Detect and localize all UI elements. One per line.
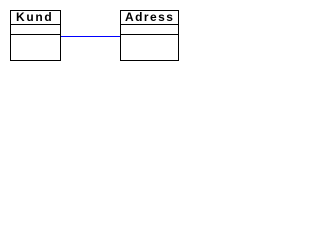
class name Kund [16,13,53,22]
compartment divider (Kund attributes) [10,24,61,25]
compartment divider (Adress attributes) [120,24,179,25]
class name Adress [125,13,174,22]
association line Kund-Adress [61,36,120,37]
class box Adress [120,10,179,61]
compartment divider (Adress operations) [120,34,179,35]
compartment divider (Kund operations) [10,34,61,35]
class box Kund [10,10,61,61]
